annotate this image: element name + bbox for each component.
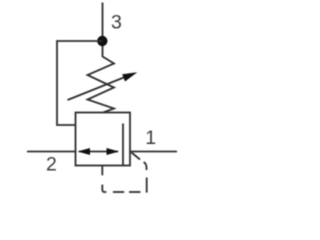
port 1 line xyxy=(130,151,177,153)
spring xyxy=(88,57,115,113)
pilot dashed corner bottom left xyxy=(102,185,106,192)
internal pilot vertical line xyxy=(122,124,124,166)
flow path right arrow head xyxy=(107,148,120,155)
wire bypass from junction to valve left side xyxy=(57,41,103,125)
adjustment arrow head xyxy=(122,72,137,81)
pilot tap diagonal xyxy=(132,153,141,160)
svg-text:1: 1 xyxy=(145,127,156,149)
flow path left arrow head xyxy=(78,148,91,155)
valve body box xyxy=(76,113,131,166)
pilot dashed bottom segment a xyxy=(129,191,140,193)
flow path double arrow shaft xyxy=(79,151,118,153)
port 2 line xyxy=(27,151,76,153)
svg-text:2: 2 xyxy=(46,154,57,176)
junction dot xyxy=(97,36,107,46)
pilot dashed left side xyxy=(101,165,103,175)
svg-text:3: 3 xyxy=(111,12,122,34)
port 3 line xyxy=(102,3,104,58)
pilot dashed corner top right xyxy=(144,162,147,170)
pilot dashed bottom segment b xyxy=(113,191,124,193)
adjustment arrow shaft xyxy=(68,77,126,100)
pilot dashed right side xyxy=(146,178,148,193)
